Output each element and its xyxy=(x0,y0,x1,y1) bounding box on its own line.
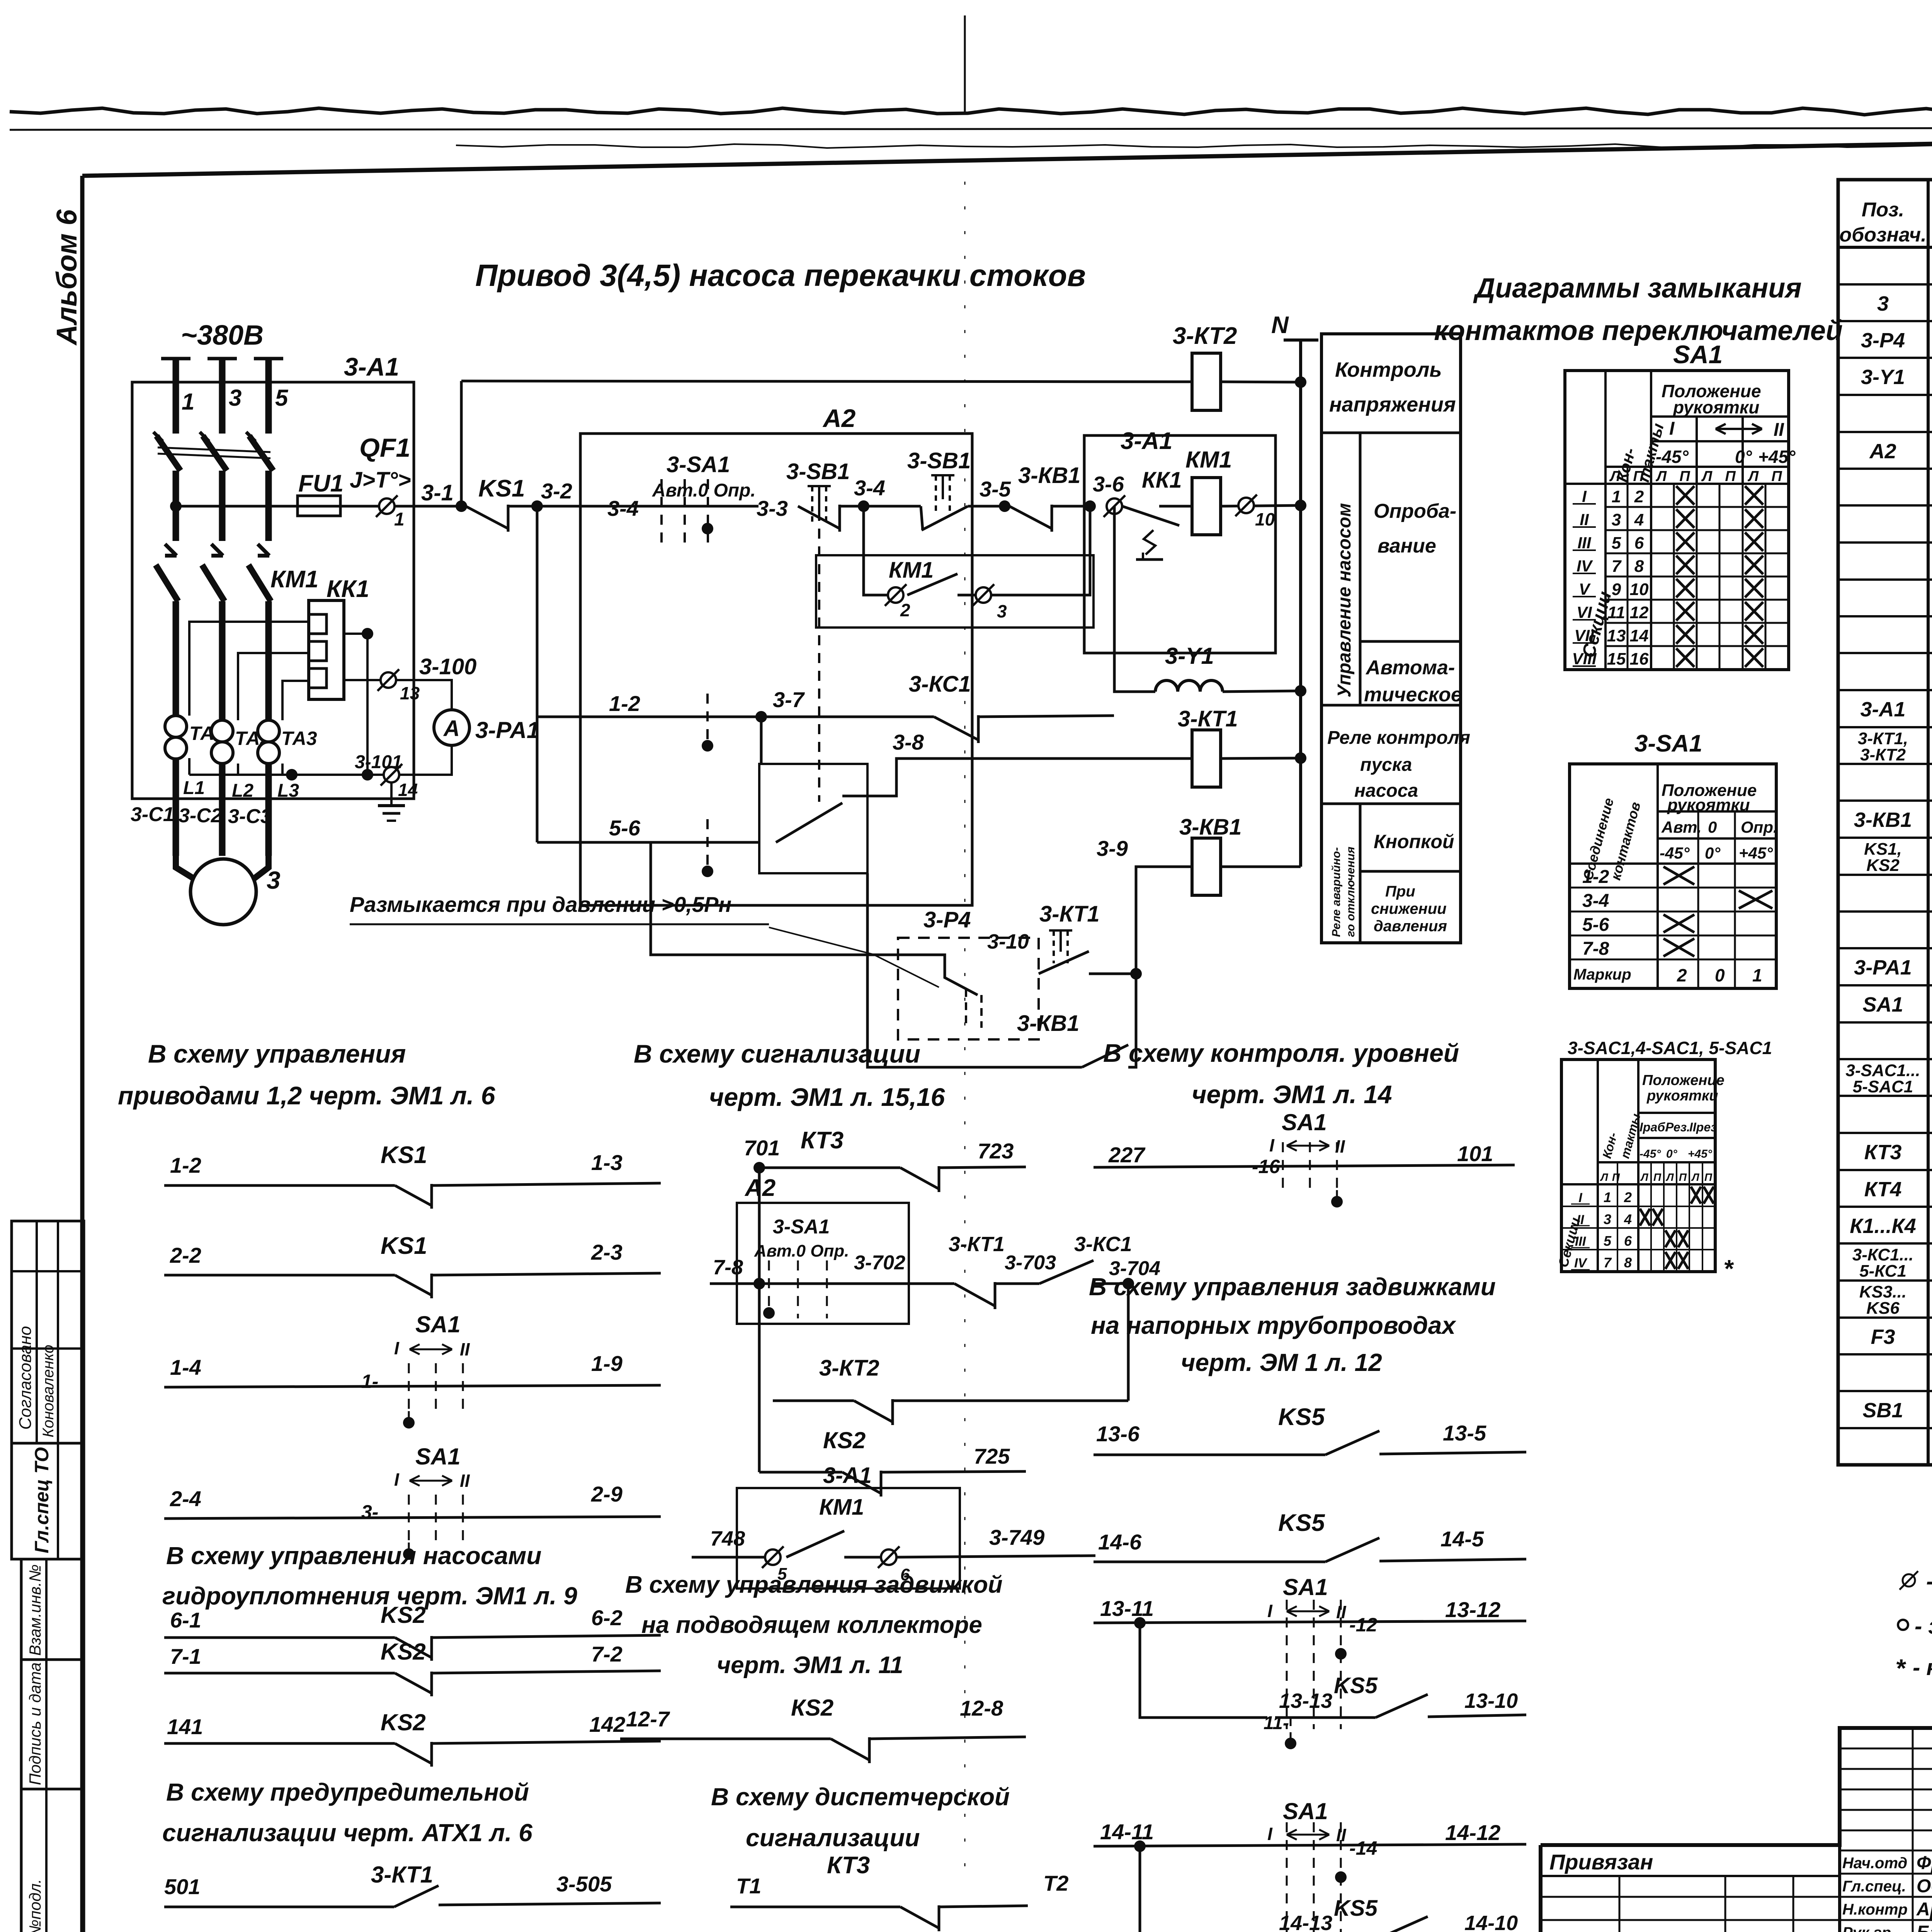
svg-text:3-КС1: 3-КС1 xyxy=(1074,1233,1132,1256)
svg-text:3-Y1: 3-Y1 xyxy=(1165,643,1214,669)
svg-text:Поз.: Поз. xyxy=(1862,199,1904,221)
svg-text:3: 3 xyxy=(1612,510,1621,529)
SA1 row II closed marks xyxy=(1676,509,1694,528)
svg-text:1-2: 1-2 xyxy=(1582,867,1609,887)
svg-text:14: 14 xyxy=(1630,626,1649,645)
3-SAC1 row I closed marks xyxy=(1691,1187,1701,1204)
svg-text:II: II xyxy=(460,1339,470,1359)
svg-text:давления: давления xyxy=(1374,918,1447,935)
svg-text:L2: L2 xyxy=(232,781,253,801)
component row 6: Блок управления БУ2 xyxy=(1838,468,1932,470)
svg-text:II: II xyxy=(1577,1213,1585,1227)
svg-text:3-SB1: 3-SB1 xyxy=(907,448,971,473)
svg-text:3: 3 xyxy=(997,601,1007,621)
svg-text:В схему предупредительной: В схему предупредительной xyxy=(166,1778,529,1806)
svg-text:+45°: +45° xyxy=(1688,1148,1713,1160)
svg-text:Кнопкой: Кнопкой xyxy=(1374,831,1454,852)
svg-text:SB1: SB1 xyxy=(1862,1399,1903,1422)
svg-text:2: 2 xyxy=(1624,1189,1632,1205)
svg-text:Гл.спец.: Гл.спец. xyxy=(1842,1878,1906,1895)
svg-text:на подводящем коллекторе: на подводящем коллекторе xyxy=(641,1612,982,1638)
contactor KM1 power contact arrow 3 xyxy=(211,544,223,556)
phase bus 5 xyxy=(254,357,283,361)
svg-text:7-1: 7-1 xyxy=(170,1644,201,1668)
svg-text:П: П xyxy=(1704,1171,1713,1183)
SA1 row VI closed marks xyxy=(1676,602,1694,621)
svg-text:Л: Л xyxy=(1600,1171,1608,1183)
svg-text:3-КТ2: 3-КТ2 xyxy=(1173,323,1237,349)
svg-text:рукоятки: рукоятки xyxy=(1672,397,1759,417)
svg-text:А2: А2 xyxy=(1869,440,1896,463)
svg-text:3: 3 xyxy=(267,866,281,894)
svg-text:3-749: 3-749 xyxy=(989,1525,1044,1549)
scan artifact top wavy line xyxy=(10,108,1932,115)
svg-text:-45°: -45° xyxy=(1660,844,1690,862)
svg-text:L1: L1 xyxy=(183,778,205,798)
vertical riser to control rail xyxy=(460,381,463,506)
svg-text:F3: F3 xyxy=(1871,1325,1895,1349)
svg-text:6-1: 6-1 xyxy=(170,1608,201,1632)
svg-text:Обозная: Обозная xyxy=(1917,1876,1932,1896)
svg-text:0°: 0° xyxy=(1705,844,1721,862)
current transformer TA3 xyxy=(258,720,279,742)
component row 5: empty xyxy=(1838,431,1932,433)
svg-text:3-РА1: 3-РА1 xyxy=(475,717,539,743)
svg-text:обознач.: обознач. xyxy=(1839,224,1926,246)
KM1 aux blade (748 row) xyxy=(786,1531,844,1557)
svg-text:Нач.отд: Нач.отд xyxy=(1842,1855,1907,1872)
cell Реле контроля пуска насоса xyxy=(1321,704,1461,707)
svg-text:IIрез: IIрез xyxy=(1689,1120,1717,1134)
svg-text:1-2: 1-2 xyxy=(170,1153,201,1177)
wire into pressure row xyxy=(651,842,898,955)
svg-text:рукоятки: рукоятки xyxy=(1646,1088,1718,1104)
component row 4: Вентиль запорный 15кч888рСВМ,~ xyxy=(1838,394,1932,396)
svg-text:1-9: 1-9 xyxy=(591,1351,622,1376)
component row 14: Реле РКВ11-33-122УХЛ4,~220В, xyxy=(1838,763,1932,765)
svg-text:+45°: +45° xyxy=(1739,844,1773,862)
svg-text:3-703: 3-703 xyxy=(1005,1252,1056,1274)
svg-text:101: 101 xyxy=(1457,1141,1493,1166)
svg-text:I: I xyxy=(1267,1824,1273,1844)
component row 26: Реле РКВ11-33-112ХЛ4,~220В,ТУ1 xyxy=(1838,1206,1932,1208)
svg-text:Реле контроля: Реле контроля xyxy=(1327,728,1470,748)
contact KM1 self-hold box xyxy=(816,555,1094,628)
block A2 box xyxy=(580,434,972,905)
svg-text:3-6: 3-6 xyxy=(1093,472,1124,496)
svg-text:Л: Л xyxy=(1665,1171,1674,1183)
left margin stamp column xyxy=(12,1221,84,1559)
svg-text:8: 8 xyxy=(1634,557,1644,576)
svg-text:3-КТ1: 3-КТ1 xyxy=(1178,706,1238,731)
svg-text:VII: VII xyxy=(1574,626,1595,645)
svg-text:черт. ЭМ1 л. 14: черт. ЭМ1 л. 14 xyxy=(1192,1080,1392,1109)
svg-text:10: 10 xyxy=(1255,509,1275,529)
cell При снижении давления xyxy=(1360,870,1461,873)
fold mark vertical line xyxy=(964,15,966,113)
svg-text:3-505: 3-505 xyxy=(556,1872,612,1896)
svg-text:-12: -12 xyxy=(1349,1614,1377,1636)
svg-text:При: При xyxy=(1385,883,1415,900)
TA secondary wiring xyxy=(189,622,309,716)
component row 8: ТУ16-642.046-86 xyxy=(1838,541,1932,544)
cell Автоматическое xyxy=(1360,640,1461,643)
svg-text:Баруан: Баруан xyxy=(1917,1922,1932,1932)
phase bus 3 xyxy=(207,357,237,361)
svg-text:3-РА1: 3-РА1 xyxy=(1854,956,1912,979)
breaker QF1 pole 5 xyxy=(249,436,273,471)
SA1 row V closed marks xyxy=(1676,579,1694,597)
svg-text:3-С2: 3-С2 xyxy=(179,804,222,827)
svg-text:7: 7 xyxy=(1612,557,1622,576)
svg-text:L3: L3 xyxy=(277,781,299,801)
wire phi3 to 3-6 node xyxy=(991,506,1090,595)
component row 10: №2-ц.к. 1з+1р „Стоп”, ТУ16-526 xyxy=(1838,615,1932,617)
svg-text:КК1: КК1 xyxy=(1142,468,1182,493)
svg-text:SA1: SA1 xyxy=(415,1311,461,1337)
svg-text:5: 5 xyxy=(275,385,289,411)
svg-text:3-А1: 3-А1 xyxy=(344,352,399,381)
pressure switch 3-P4 dashed box xyxy=(898,938,1039,1039)
3-SA1 connection 7-8 closed mark xyxy=(1663,939,1694,956)
svg-text:КТ4: КТ4 xyxy=(1864,1178,1902,1201)
component row 18: empty xyxy=(1838,910,1932,913)
function table column xyxy=(1321,334,1461,943)
svg-text:В схему управления задвижками: В схему управления задвижками xyxy=(1089,1273,1496,1301)
svg-text:I: I xyxy=(1669,418,1675,439)
component row 23: Переключатель УП5312-С45У3, xyxy=(1838,1095,1932,1097)
svg-text:на напорных трубопроводах: на напорных трубопроводах xyxy=(1091,1311,1456,1339)
svg-text:4: 4 xyxy=(1624,1211,1632,1227)
svg-text:501: 501 xyxy=(164,1874,200,1899)
svg-text:тическое: тическое xyxy=(1364,684,1462,706)
title block signature grid xyxy=(1840,1748,1932,1750)
svg-text:3-8: 3-8 xyxy=(893,730,924,754)
svg-text:Инв.№подл.: Инв.№подл. xyxy=(26,1879,44,1932)
svg-text:2-9: 2-9 xyxy=(591,1482,622,1506)
svg-text:3-С3: 3-С3 xyxy=(228,805,272,828)
wire 3-101 with terminal 14 xyxy=(189,745,452,775)
component row 2: Электродвигатель xyxy=(1838,320,1932,322)
control rail top xyxy=(461,381,1192,382)
phase conductor 5 lower xyxy=(265,601,272,856)
title block outer border xyxy=(1541,1728,1932,1932)
svg-text:9: 9 xyxy=(1612,580,1621,599)
svg-text:13-5: 13-5 xyxy=(1443,1421,1486,1445)
svg-text:III: III xyxy=(1577,534,1591,552)
svg-text:748: 748 xyxy=(710,1527,745,1550)
svg-text:3-5: 3-5 xyxy=(980,477,1011,501)
svg-text:3-100: 3-100 xyxy=(419,654,476,679)
svg-text:15: 15 xyxy=(1607,650,1626,668)
svg-text:11: 11 xyxy=(1607,603,1625,622)
svg-text:2: 2 xyxy=(1634,487,1644,506)
legend o item xyxy=(1898,1620,1908,1630)
svg-text:3-КВ1: 3-КВ1 xyxy=(1017,1011,1079,1036)
svg-text:3-SA1: 3-SA1 xyxy=(773,1216,830,1238)
svg-text:723: 723 xyxy=(978,1139,1014,1163)
svg-text:3-7: 3-7 xyxy=(773,687,805,712)
svg-text:1-3: 1-3 xyxy=(591,1150,622,1175)
SA1 dash over 1-2 row xyxy=(706,694,709,740)
svg-text:12-7: 12-7 xyxy=(626,1707,670,1731)
box 3-A1 control section xyxy=(1084,435,1276,653)
svg-text:3-КТ1: 3-КТ1 xyxy=(949,1233,1005,1256)
svg-text:черт. ЭМ1 л. 15,16: черт. ЭМ1 л. 15,16 xyxy=(709,1083,946,1111)
svg-text:I: I xyxy=(394,1338,400,1358)
component row 31: ТУ16-521. 037-75 xyxy=(1838,1390,1932,1392)
svg-text:П: П xyxy=(1679,1171,1687,1183)
svg-text:2-4: 2-4 xyxy=(170,1486,201,1511)
svg-text:П: П xyxy=(1679,468,1690,485)
QF1 mechanical tie xyxy=(158,447,270,452)
svg-text:14-5: 14-5 xyxy=(1440,1527,1484,1551)
svg-text:3-101: 3-101 xyxy=(355,752,402,772)
svg-text:3: 3 xyxy=(1604,1211,1611,1227)
svg-text:3-КС1: 3-КС1 xyxy=(909,672,971,697)
svg-text:снижении: снижении xyxy=(1371,900,1447,917)
svg-text:Реле аварийно-: Реле аварийно- xyxy=(1330,847,1343,937)
svg-text:8: 8 xyxy=(1624,1255,1632,1270)
svg-text:Л: Л xyxy=(1701,468,1713,485)
terminal 10 wire to N xyxy=(1221,505,1301,506)
svg-text:7-2: 7-2 xyxy=(591,1642,622,1666)
svg-text:Авт.0 Опр.: Авт.0 Опр. xyxy=(652,480,756,501)
svg-text:сигнализации черт. АТХ1 л. 6: сигнализации черт. АТХ1 л. 6 xyxy=(162,1819,532,1847)
svg-text:черт. ЭМ 1 л. 12: черт. ЭМ 1 л. 12 xyxy=(1181,1349,1382,1376)
wire 3-7 drop xyxy=(760,717,763,764)
svg-text:2-2: 2-2 xyxy=(170,1243,201,1267)
cell Управление насосом (rotated) xyxy=(1359,433,1362,705)
svg-text:725: 725 xyxy=(974,1444,1010,1468)
svg-text:3-КВ1: 3-КВ1 xyxy=(1179,815,1242,840)
svg-text:VIII: VIII xyxy=(1572,650,1597,668)
svg-text:IV: IV xyxy=(1577,557,1593,575)
component row 27: Реле РП20-217У3,42,~220В,ТУ16- xyxy=(1838,1242,1932,1245)
wire 3-704 drop xyxy=(1127,1284,1130,1401)
svg-text:приводами 1,2 черт. ЭМ1 л. 6: приводами 1,2 черт. ЭМ1 л. 6 xyxy=(118,1081,496,1110)
svg-text:Рук.гр.: Рук.гр. xyxy=(1842,1924,1895,1932)
component row 9: 3-SB1-Пост ПКЕ-212-2У3 №1 ц.ч. xyxy=(1838,578,1932,581)
svg-text:14-10: 14-10 xyxy=(1464,1912,1518,1932)
svg-text:Т1: Т1 xyxy=(736,1874,761,1898)
svg-text:1: 1 xyxy=(1604,1189,1611,1205)
relay coil 3-KT2 xyxy=(1192,353,1221,410)
svg-text:3-4: 3-4 xyxy=(1582,891,1609,911)
svg-text:3-SAC1,4-SAC1, 5-SAC1: 3-SAC1,4-SAC1, 5-SAC1 xyxy=(1568,1038,1772,1058)
component row 11: empty xyxy=(1838,652,1932,654)
component row 24: ТУ16-524.074-75 xyxy=(1838,1132,1932,1134)
svg-text:3-А1: 3-А1 xyxy=(823,1463,872,1488)
svg-text:A: A xyxy=(443,716,460,741)
svg-text:KS2: KS2 xyxy=(381,1709,426,1735)
svg-text:+45°: +45° xyxy=(1758,447,1796,467)
svg-text:SA1: SA1 xyxy=(1673,340,1723,369)
svg-text:SA1: SA1 xyxy=(1283,1574,1328,1600)
switch diagram 3-SAC1 table xyxy=(1561,1060,1715,1272)
svg-text:рукоятки: рукоятки xyxy=(1667,796,1750,815)
svg-text:Управление насосом: Управление насосом xyxy=(1334,503,1355,697)
svg-text:П: П xyxy=(1612,1171,1620,1183)
svg-text:Контроль: Контроль xyxy=(1335,358,1442,381)
svg-text:0: 0 xyxy=(1715,965,1725,985)
svg-text:I: I xyxy=(394,1469,400,1490)
component row 30: Предохранитель ППТ-10У3,Тпл.вс xyxy=(1838,1353,1932,1355)
svg-text:13: 13 xyxy=(400,683,420,703)
svg-text:Л: Л xyxy=(1609,468,1621,485)
left rail to rows 1-2 and 5-6 xyxy=(536,506,539,842)
wire 3-9 xyxy=(1136,867,1194,974)
svg-text:N: N xyxy=(1271,312,1289,338)
wire 3-1 with terminal 1 xyxy=(176,505,461,508)
svg-text:*: * xyxy=(1895,1654,1906,1682)
svg-text:го отключения: го отключения xyxy=(1344,847,1357,937)
svg-text:6: 6 xyxy=(1624,1233,1632,1249)
svg-text:14: 14 xyxy=(398,780,418,800)
phase bus 1 xyxy=(161,357,190,361)
svg-text:Л: Л xyxy=(1640,1171,1648,1183)
svg-text:Диаграммы замыкания: Диаграммы замыкания xyxy=(1473,273,1801,304)
svg-text:KS5: KS5 xyxy=(1278,1404,1325,1430)
svg-text:I: I xyxy=(1269,1135,1275,1155)
SA1 row I closed marks xyxy=(1676,486,1694,505)
ammeter 3-PA1 xyxy=(434,710,469,745)
svg-text:KS2: KS2 xyxy=(381,1602,426,1628)
svg-text:А2: А2 xyxy=(822,404,856,432)
wire from 3-4 node down to phi2 xyxy=(864,506,888,595)
svg-text:3-1: 3-1 xyxy=(421,480,454,505)
svg-text:KS5: KS5 xyxy=(1278,1510,1325,1536)
SA1 dash over 5-6 row xyxy=(706,819,709,866)
svg-text:Положение: Положение xyxy=(1642,1072,1725,1088)
svg-text:Подпись и дата: Подпись и дата xyxy=(26,1662,44,1785)
svg-text:~380В: ~380В xyxy=(181,320,264,351)
svg-text:2: 2 xyxy=(1677,965,1687,985)
3-SA1 connection 1-2 closed mark xyxy=(1663,867,1694,884)
svg-text:12: 12 xyxy=(1630,603,1649,622)
svg-text:3-Р4: 3-Р4 xyxy=(923,907,971,932)
svg-text:3-3: 3-3 xyxy=(757,496,788,520)
svg-text:3-Y1: 3-Y1 xyxy=(1861,366,1905,389)
svg-text:14-6: 14-6 xyxy=(1098,1530,1142,1554)
svg-text:В схему сигнализации: В схему сигнализации xyxy=(634,1039,920,1068)
svg-text:SA1: SA1 xyxy=(415,1444,461,1469)
svg-text:черт. ЭМ1 л. 11: черт. ЭМ1 л. 11 xyxy=(717,1652,903,1679)
current transformer TA1 xyxy=(165,716,187,737)
svg-text:4: 4 xyxy=(1634,510,1644,529)
svg-text:насоса: насоса xyxy=(1354,781,1418,801)
svg-text:Н.контр: Н.контр xyxy=(1842,1901,1908,1918)
svg-text:Авт.0 Опр.: Авт.0 Опр. xyxy=(754,1242,849,1260)
svg-text:1-2: 1-2 xyxy=(609,691,640,716)
svg-text:13: 13 xyxy=(1607,626,1626,645)
svg-text:В схему контроля. уровней: В схему контроля. уровней xyxy=(1103,1039,1459,1067)
svg-text:3-702: 3-702 xyxy=(854,1252,905,1274)
svg-text:12-8: 12-8 xyxy=(960,1696,1003,1720)
component row 25: Реле РКВ11-33-222УХЛ4,~220В,ТУ xyxy=(1838,1169,1932,1171)
component row 21: Переключатель УП5314-Ж141У3, xyxy=(1838,1021,1932,1024)
svg-text:227: 227 xyxy=(1108,1143,1146,1167)
component row 13: Блок управления xyxy=(1838,726,1932,728)
svg-text:*: * xyxy=(1723,1255,1734,1282)
svg-text:7-8: 7-8 xyxy=(1582,939,1609,959)
svg-text:3-А1: 3-А1 xyxy=(1860,698,1905,721)
svg-text:В схему диспетчерской: В схему диспетчерской xyxy=(711,1783,1010,1811)
svg-text:1: 1 xyxy=(394,509,405,530)
svg-text:3-КТ1: 3-КТ1 xyxy=(1039,901,1100,927)
svg-text:II: II xyxy=(460,1471,470,1491)
svg-text:KS1: KS1 xyxy=(381,1142,427,1168)
svg-text:SA1: SA1 xyxy=(1862,993,1903,1016)
cell Реле аварийного отключения (rotated) xyxy=(1321,803,1461,805)
svg-text:3-КТ1: 3-КТ1 xyxy=(371,1862,433,1888)
svg-text:16: 16 xyxy=(1630,650,1649,668)
component row 17: Реле РП-9У4,~220В, ТУ16-523.07 xyxy=(1838,874,1932,876)
contactor coil KM1 xyxy=(1192,478,1221,535)
svg-text:QF1: QF1 xyxy=(359,433,410,463)
svg-text:КТ3: КТ3 xyxy=(801,1127,844,1154)
svg-text:В схему управления насосами: В схему управления насосами xyxy=(166,1542,541,1570)
svg-text:0: 0 xyxy=(1708,818,1717,836)
svg-text:Согласовано: Согласовано xyxy=(16,1326,35,1430)
svg-text:142: 142 xyxy=(589,1712,625,1736)
switch diagram 3-SA1 table xyxy=(1570,764,1776,988)
svg-text:П: П xyxy=(1771,468,1782,485)
fuse FU1 xyxy=(298,496,340,516)
svg-text:гидроуплотнения черт. ЭМ1 л.: гидроуплотнения черт. ЭМ1 л. 9 xyxy=(162,1582,577,1610)
svg-text:I: I xyxy=(1267,1601,1273,1621)
svg-text:3-SA1: 3-SA1 xyxy=(667,452,730,477)
KM1 aux blade xyxy=(907,574,957,595)
wire 3-100 to ammeter with terminal 13 xyxy=(344,680,452,710)
svg-text:13-10: 13-10 xyxy=(1464,1689,1518,1713)
svg-text:КМ1: КМ1 xyxy=(1185,447,1232,473)
phase conductor 3 lower xyxy=(219,601,226,856)
svg-text:0°: 0° xyxy=(1735,447,1752,467)
svg-text:KS1: KS1 xyxy=(478,475,525,502)
thermal relay KK1 heater xyxy=(309,600,344,699)
svg-text:В схему управления задвижкой: В схему управления задвижкой xyxy=(625,1571,1003,1598)
component row 15: ТУ16-647. 036-86 xyxy=(1838,799,1932,802)
svg-text:1-: 1- xyxy=(361,1371,378,1392)
svg-text:5-КС1: 5-КС1 xyxy=(1859,1262,1906,1281)
svg-text:К1...К4: К1...К4 xyxy=(1850,1214,1916,1238)
terminal 2 xyxy=(888,587,903,603)
svg-text:КК1: КК1 xyxy=(327,576,369,602)
component row 22: ТУ16-524.074-75 xyxy=(1838,1058,1932,1060)
cell Контроль напряжения xyxy=(1321,432,1461,434)
svg-text:IV: IV xyxy=(1574,1256,1588,1270)
svg-text:SA1: SA1 xyxy=(1282,1109,1327,1135)
svg-text:3-КВ1: 3-КВ1 xyxy=(1854,808,1912,832)
svg-text:Л: Л xyxy=(1655,468,1667,485)
svg-text:-45°: -45° xyxy=(1656,447,1689,467)
svg-text:Коноваленко: Коноваленко xyxy=(40,1345,57,1437)
svg-text:14-11: 14-11 xyxy=(1100,1820,1154,1844)
component row 33: ТУ16-642.015-84 xyxy=(1838,1464,1932,1466)
box 3-A1 power section xyxy=(132,382,414,799)
svg-text:КМ1: КМ1 xyxy=(889,558,934,583)
svg-text:Привязан: Привязан xyxy=(1549,1850,1653,1874)
svg-text:пуска: пуска xyxy=(1360,755,1412,775)
svg-text:КТ3: КТ3 xyxy=(1864,1141,1902,1164)
title block left part grid xyxy=(1541,1875,1840,1877)
svg-text:3-SA1: 3-SA1 xyxy=(1634,730,1702,757)
svg-text:Автома-: Автома- xyxy=(1365,656,1455,679)
svg-text:3-КВ1: 3-КВ1 xyxy=(1018,463,1080,488)
wire 3-8 row to 3-KT1 xyxy=(867,759,1192,796)
contactor KM1 power blade 5 xyxy=(248,565,271,601)
